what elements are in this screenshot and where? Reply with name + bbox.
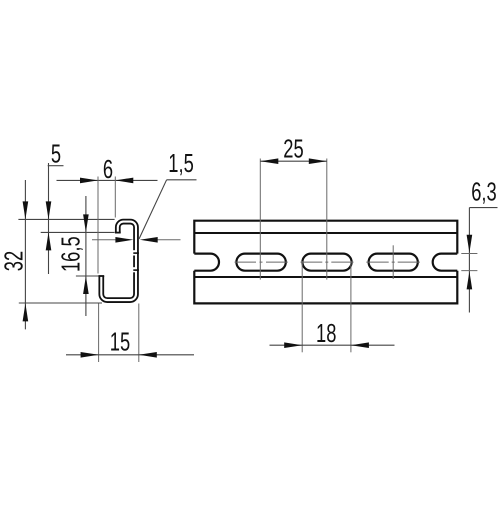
dimension 5 arrow lower [46, 232, 52, 250]
dimension 18 arrow right [351, 342, 369, 348]
dimension 6 arrow left [80, 178, 98, 184]
slot 2 horizontal center line [301, 261, 354, 263]
svg-text:1,5: 1,5 [168, 149, 193, 178]
dimension 25 line [260, 160, 327, 162]
dimension 16,5 arrow lower [83, 276, 89, 294]
half slot right [433, 254, 458, 271]
slot edge tick lower [133, 269, 139, 271]
svg-text:16,5: 16,5 [56, 236, 85, 272]
dimension 15 arrow right [139, 352, 157, 358]
svg-text:32: 32 [0, 251, 28, 271]
dimension 5 shelf [48, 165, 64, 167]
dimension 15 extension right [138, 304, 140, 363]
svg-text:18: 18 [316, 319, 336, 348]
half slot left [194, 254, 219, 271]
rail fold line upper [194, 232, 457, 234]
thickness 1,5 arrow right [140, 237, 158, 243]
dimension 15 line [66, 354, 194, 356]
dimension 6 extension right [114, 177, 116, 218]
dimension 15 arrow left [81, 352, 99, 358]
rail side view outline top [194, 221, 457, 254]
thickness 1,5 arrow line right [155, 239, 181, 241]
dimension 6 line [57, 179, 158, 181]
svg-text:6: 6 [103, 155, 113, 184]
svg-text:5: 5 [51, 139, 61, 168]
dimension 6 extension left [97, 177, 99, 274]
dimension 5 line [48, 163, 50, 274]
slot edge tick upper [133, 252, 139, 254]
dimension 16,5 arrow upper [83, 214, 89, 232]
dimension 6,3 tick upper [461, 253, 477, 255]
svg-text:15: 15 [110, 327, 130, 356]
dimension 6,3 leader horizontal [469, 207, 497, 209]
dimension 6,3 arrow lower [467, 271, 473, 289]
dimension 15 extension left [98, 304, 100, 363]
rail fold line lower [194, 276, 457, 278]
dimension 25 arrow left [260, 158, 278, 164]
dimension 6,3 line vertical [468, 208, 470, 313]
dimension 32 arrow top [23, 201, 29, 219]
dimension 6,3 tick lower [461, 270, 477, 272]
extension line top of profile [18, 218, 114, 220]
dimension 18 line [270, 344, 395, 346]
dimension 32 arrow bottom [23, 303, 29, 321]
dimension 6 arrow right [115, 178, 133, 184]
slot 3 vertical center line [392, 245, 394, 279]
profile sheet outline (C-rail cross-section, left view) [101, 222, 136, 301]
slot 2 vertical center line [326, 159, 328, 280]
dimension 25 arrow right [309, 158, 327, 164]
dimension 18 arrow left [284, 342, 302, 348]
slot 3 [369, 254, 418, 271]
dimension 6,3 arrow upper [467, 235, 473, 253]
thickness 1,5 arrow left [115, 237, 133, 243]
extension line bottom of profile [19, 302, 102, 304]
rail side view outline bottom [194, 271, 457, 304]
thickness 1,5 shelf [167, 179, 197, 181]
extension line lip top [76, 275, 99, 277]
slot 1 horizontal center line [235, 261, 288, 263]
lip top end cap [98, 275, 104, 277]
slot 3 horizontal center line [366, 261, 420, 263]
svg-text:25: 25 [283, 134, 303, 163]
dimension 18 extension left [301, 261, 303, 352]
slot break gaps on wall inner line [133, 250, 135, 255]
thickness 1,5 arrow line left [92, 239, 120, 241]
extension line hook leg end [41, 231, 115, 233]
slot 1 vertical center line [259, 159, 261, 280]
thickness 1,5 leader diagonal [139, 180, 167, 239]
hook leg end cap [115, 232, 121, 234]
dimension 18 extension right [350, 261, 352, 352]
slot 2 [302, 254, 351, 271]
dimension 5 arrow upper [46, 201, 52, 219]
dimension 16,5 line [85, 196, 87, 316]
slot 1 [236, 254, 285, 271]
svg-text:6,3: 6,3 [471, 177, 496, 206]
dimension 32 line [24, 180, 26, 329]
